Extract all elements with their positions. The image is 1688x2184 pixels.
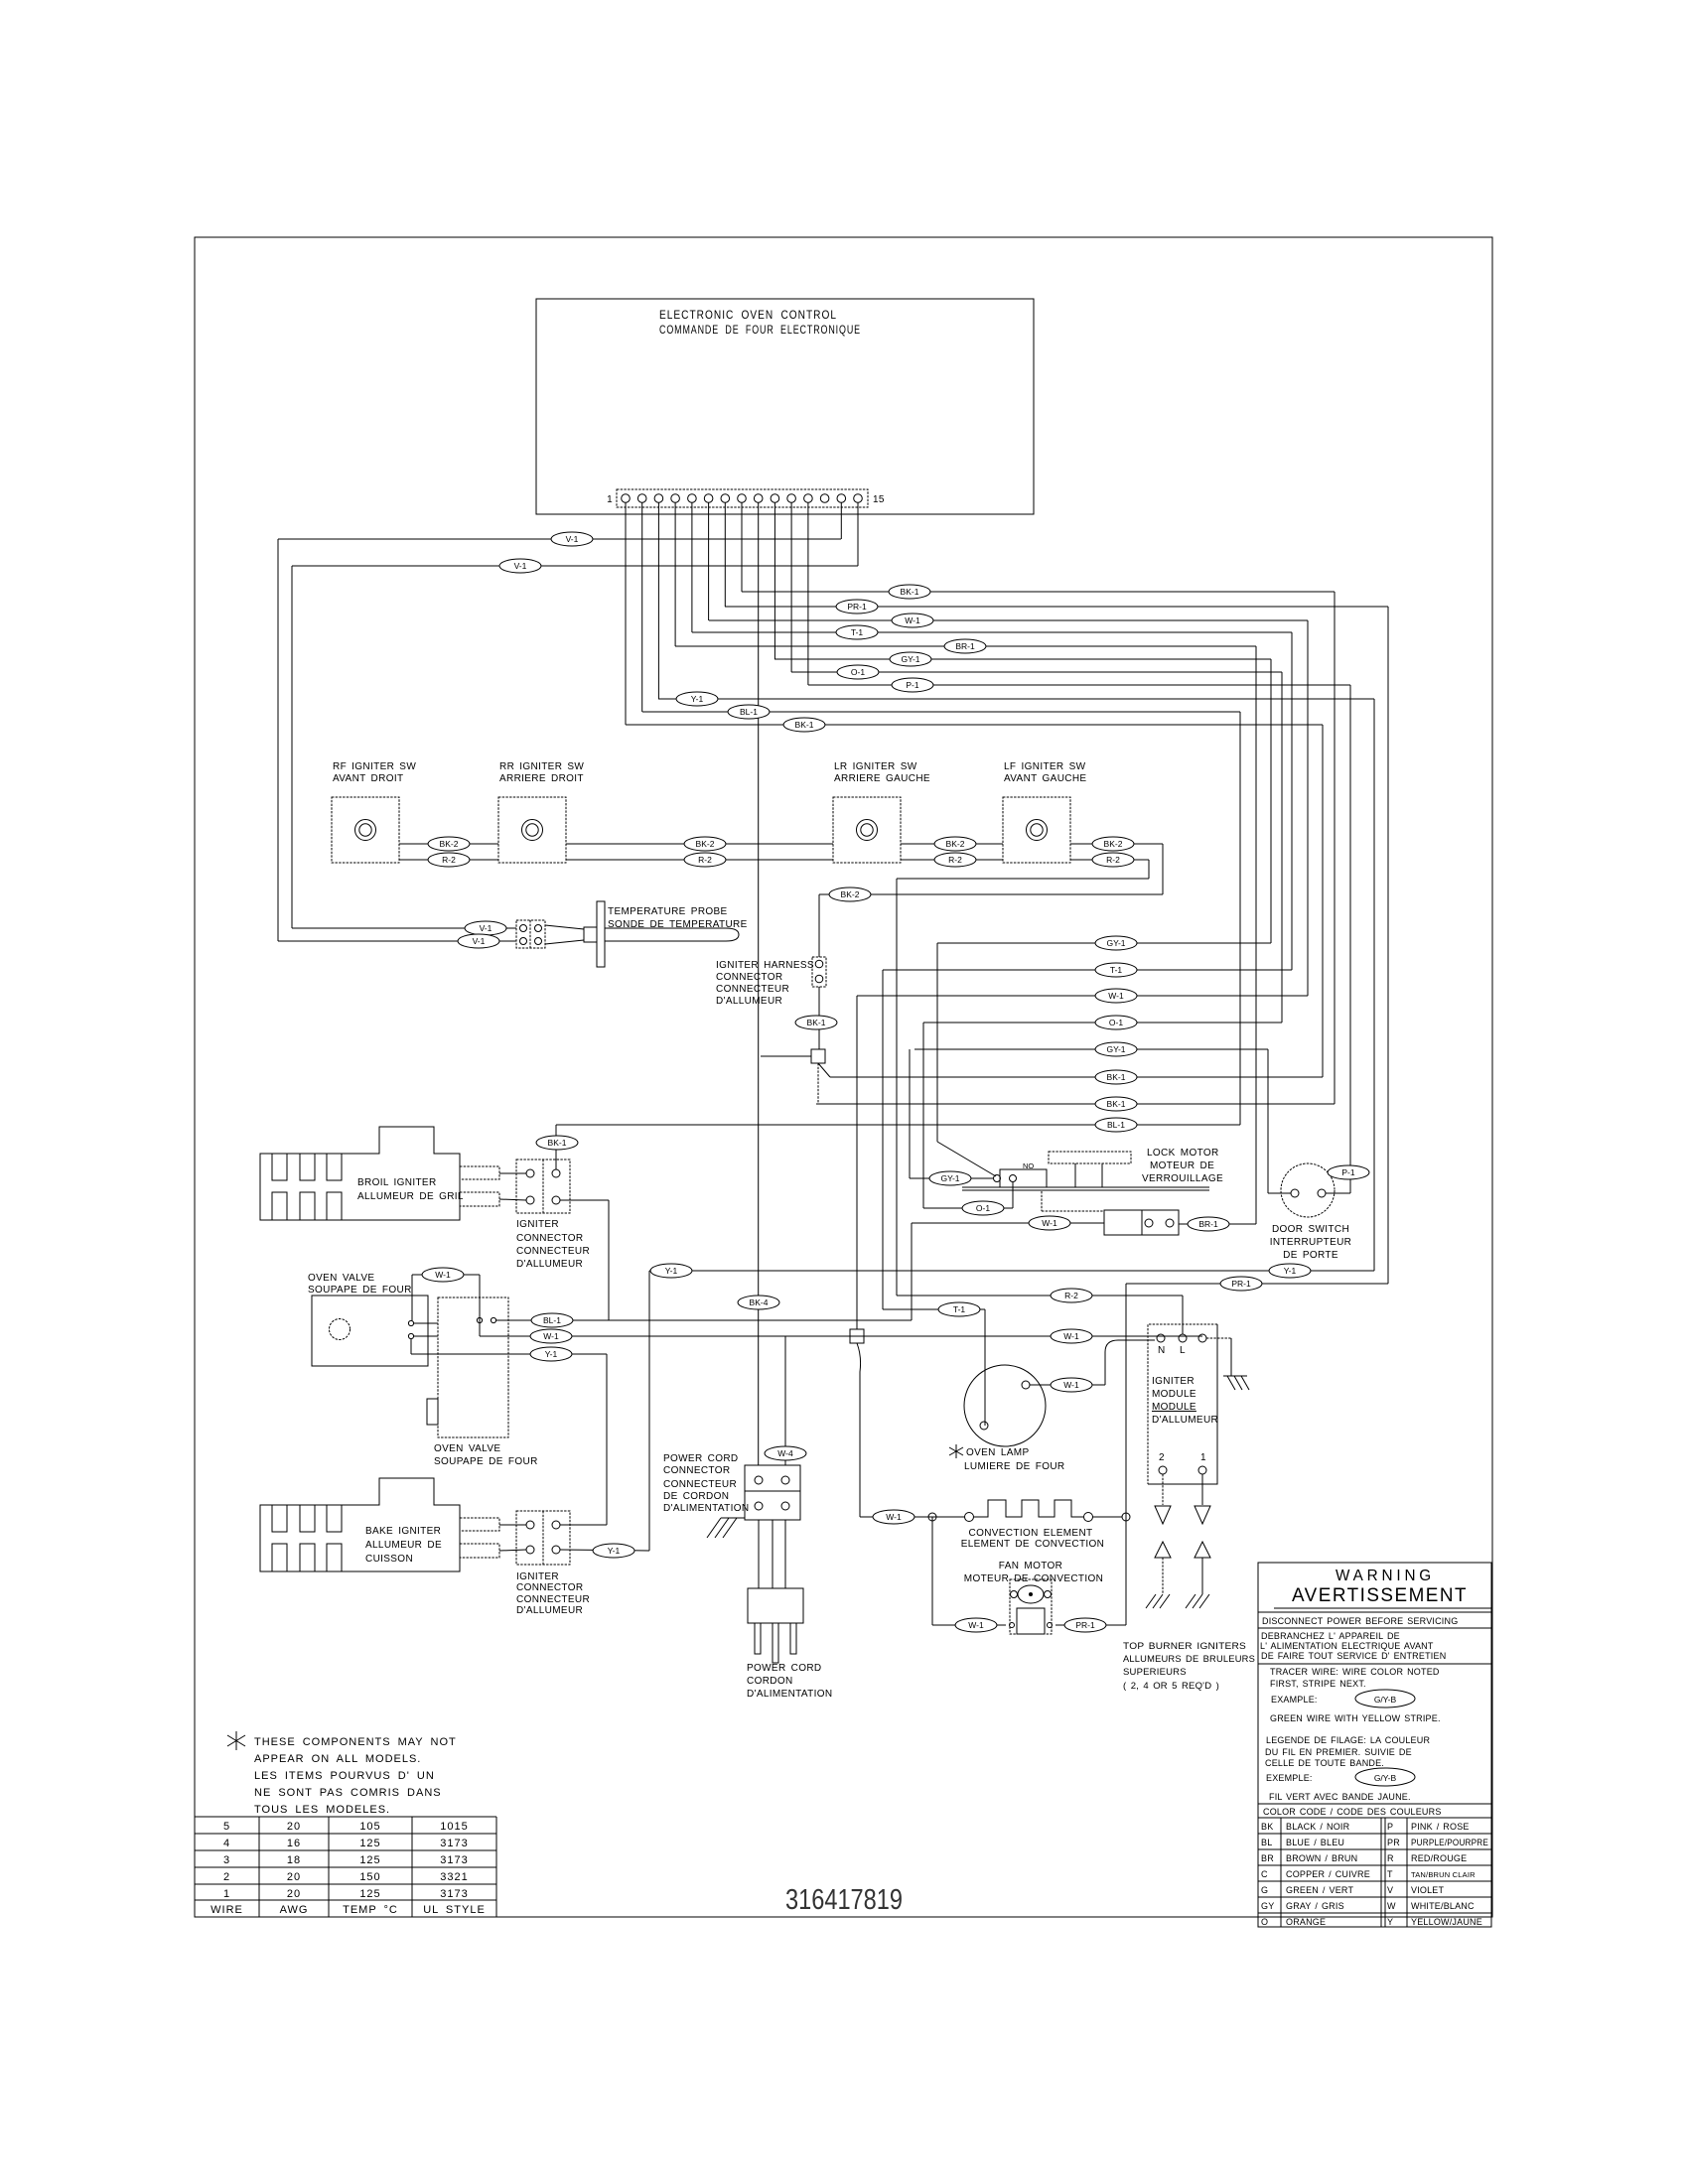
svg-text:BK-1: BK-1: [1107, 1099, 1126, 1109]
svg-text:CONNECTOR: CONNECTOR: [516, 1233, 583, 1244]
svg-text:DISCONNECT POWER BEFORE SERVIC: DISCONNECT POWER BEFORE SERVICING: [1262, 1616, 1458, 1626]
svg-text:1: 1: [607, 494, 613, 505]
svg-text:DOOR SWITCH: DOOR SWITCH: [1272, 1224, 1349, 1235]
svg-text:D'ALLUMEUR: D'ALLUMEUR: [516, 1259, 583, 1270]
svg-text:3173: 3173: [440, 1888, 468, 1900]
svg-text:ALLUMEUR DE: ALLUMEUR DE: [365, 1540, 442, 1551]
svg-text:DE CORDON: DE CORDON: [663, 1491, 729, 1502]
svg-text:ORANGE: ORANGE: [1286, 1917, 1326, 1927]
svg-text:R-2: R-2: [1106, 855, 1120, 865]
svg-text:GY-1: GY-1: [901, 654, 919, 664]
svg-text:MODULE: MODULE: [1152, 1389, 1196, 1400]
svg-text:T: T: [1387, 1869, 1393, 1879]
svg-text:BROIL IGNITER: BROIL IGNITER: [357, 1177, 437, 1188]
svg-text:D'ALLUMEUR: D'ALLUMEUR: [516, 1605, 583, 1616]
svg-text:3321: 3321: [440, 1871, 468, 1883]
svg-text:RF IGNITER SW: RF IGNITER SW: [333, 761, 416, 772]
svg-text:OVEN VALVE: OVEN VALVE: [434, 1443, 500, 1454]
svg-text:P: P: [1387, 1822, 1393, 1832]
svg-text:3: 3: [223, 1854, 230, 1866]
svg-text:ELEMENT DE CONVECTION: ELEMENT DE CONVECTION: [961, 1539, 1105, 1550]
svg-text:GY-1: GY-1: [1106, 938, 1125, 948]
svg-text:PR: PR: [1387, 1838, 1400, 1847]
svg-text:W-1: W-1: [1063, 1380, 1079, 1390]
svg-text:DU FIL EN PREMIER. SUIVIE: DU FIL EN PREMIER. SUIVIE DE: [1265, 1747, 1412, 1757]
svg-text:BK: BK: [1261, 1822, 1273, 1832]
svg-text:GY-1: GY-1: [940, 1173, 959, 1183]
svg-text:G/Y-B: G/Y-B: [1374, 1773, 1397, 1783]
svg-text:Y: Y: [1387, 1917, 1393, 1927]
svg-text:R-2: R-2: [1064, 1291, 1078, 1300]
svg-text:OVEN VALVE: OVEN VALVE: [308, 1273, 374, 1284]
svg-text:WIRE: WIRE: [211, 1904, 243, 1916]
svg-text:N: N: [1158, 1345, 1166, 1356]
svg-text:ELECTRONIC OVEN CONTROL: ELECTRONIC OVEN CONTROL: [659, 308, 837, 322]
svg-text:AVERTISSEMENT: AVERTISSEMENT: [1292, 1585, 1468, 1606]
svg-text:CONNECTEUR: CONNECTEUR: [516, 1246, 590, 1257]
svg-text:AWG: AWG: [280, 1904, 309, 1916]
svg-text:R-2: R-2: [948, 855, 962, 865]
svg-text:IGNITER: IGNITER: [516, 1219, 559, 1230]
svg-text:INTERRUPTEUR: INTERRUPTEUR: [1270, 1237, 1352, 1248]
svg-text:PR-1: PR-1: [1075, 1620, 1095, 1630]
svg-text:BAKE IGNITER: BAKE IGNITER: [365, 1526, 441, 1537]
svg-text:BK-1: BK-1: [1107, 1072, 1126, 1082]
svg-text:PURPLE/POURPRE: PURPLE/POURPRE: [1411, 1838, 1488, 1847]
svg-text:BK-2: BK-2: [440, 839, 459, 849]
svg-text:IGNITER: IGNITER: [1152, 1376, 1195, 1387]
svg-text:G/Y-B: G/Y-B: [1374, 1695, 1397, 1705]
svg-text:TOUS LES MODELES.: TOUS LES MODELES.: [254, 1804, 390, 1816]
svg-text:O-1: O-1: [1109, 1018, 1123, 1027]
svg-text:POWER CORD: POWER CORD: [663, 1453, 739, 1464]
svg-text:YELLOW/JAUNE: YELLOW/JAUNE: [1411, 1917, 1482, 1927]
svg-text:O: O: [1261, 1917, 1268, 1927]
svg-text:GY-1: GY-1: [1106, 1044, 1125, 1054]
svg-text:CONNECTEUR: CONNECTEUR: [716, 984, 789, 995]
svg-text:BK-2: BK-2: [696, 839, 715, 849]
svg-text:( 2, 4 OR 5 REQ'D ): ( 2, 4 OR 5 REQ'D ): [1123, 1681, 1219, 1692]
svg-text:CORDON: CORDON: [747, 1676, 793, 1687]
svg-text:L: L: [1180, 1345, 1186, 1356]
svg-text:COMMANDE DE FOUR ELECTRONIQ: COMMANDE DE FOUR ELECTRONIQUE: [659, 323, 861, 337]
svg-text:BL: BL: [1261, 1838, 1272, 1847]
svg-text:CONNECTEUR: CONNECTEUR: [516, 1594, 590, 1605]
svg-text:W-1: W-1: [1042, 1218, 1057, 1228]
svg-text:ALLUMEUR DE GRIL: ALLUMEUR DE GRIL: [357, 1191, 464, 1202]
svg-text:CONNECTOR: CONNECTOR: [516, 1582, 583, 1593]
svg-text:R-2: R-2: [442, 855, 456, 865]
svg-text:D'ALIMENTATION: D'ALIMENTATION: [663, 1503, 749, 1514]
svg-text:P-1: P-1: [906, 680, 919, 690]
svg-text:FIRST, STRIPE NEXT.: FIRST, STRIPE NEXT.: [1270, 1679, 1366, 1689]
svg-text:BK-2: BK-2: [946, 839, 965, 849]
svg-text:PINK / ROSE: PINK / ROSE: [1411, 1822, 1470, 1832]
svg-text:BL-1: BL-1: [1107, 1120, 1125, 1130]
svg-text:V: V: [1387, 1885, 1393, 1895]
svg-text:Y-1: Y-1: [691, 694, 704, 704]
svg-text:ARRIERE GAUCHE: ARRIERE GAUCHE: [834, 773, 930, 784]
svg-text:T-1: T-1: [851, 627, 864, 637]
svg-text:125: 125: [359, 1854, 380, 1866]
svg-text:VIOLET: VIOLET: [1411, 1885, 1445, 1895]
svg-text:V-1: V-1: [566, 534, 579, 544]
svg-text:FAN MOTOR: FAN MOTOR: [999, 1561, 1062, 1571]
svg-text:BK-4: BK-4: [750, 1297, 769, 1307]
svg-text:BK-2: BK-2: [1104, 839, 1123, 849]
svg-text:P-1: P-1: [1341, 1167, 1355, 1177]
svg-text:BL-1: BL-1: [543, 1315, 561, 1325]
svg-text:CONNECTOR: CONNECTOR: [663, 1465, 730, 1476]
svg-text:RED/ROUGE: RED/ROUGE: [1411, 1853, 1467, 1863]
svg-text:EXAMPLE:: EXAMPLE:: [1271, 1695, 1318, 1705]
svg-text:BR-1: BR-1: [955, 641, 975, 651]
svg-text:20: 20: [287, 1888, 301, 1900]
svg-text:150: 150: [359, 1871, 380, 1883]
svg-text:BK-2: BK-2: [841, 889, 860, 899]
svg-text:EXEMPLE:: EXEMPLE:: [1266, 1773, 1313, 1783]
svg-text:BK-1: BK-1: [548, 1138, 567, 1148]
svg-text:SOUPAPE DE FOUR: SOUPAPE DE FOUR: [434, 1456, 538, 1467]
svg-text:O-1: O-1: [851, 667, 865, 677]
svg-text:15: 15: [873, 494, 885, 505]
svg-text:W-1: W-1: [435, 1270, 451, 1280]
svg-text:125: 125: [359, 1888, 380, 1900]
svg-text:1: 1: [223, 1888, 230, 1900]
svg-text:SONDE DE TEMPERATURE: SONDE DE TEMPERATURE: [608, 919, 748, 930]
svg-text:SOUPAPE DE FOUR: SOUPAPE DE FOUR: [308, 1285, 412, 1296]
svg-text:Y-1: Y-1: [665, 1266, 678, 1276]
svg-text:18: 18: [287, 1854, 301, 1866]
svg-text:LF IGNITER SW: LF IGNITER SW: [1004, 761, 1086, 772]
svg-text:UL STYLE: UL STYLE: [423, 1904, 486, 1916]
svg-text:SUPERIEURS: SUPERIEURS: [1123, 1667, 1187, 1678]
svg-text:R-2: R-2: [698, 855, 712, 865]
svg-text:D'ALLUMEUR: D'ALLUMEUR: [716, 996, 782, 1007]
svg-text:O-1: O-1: [976, 1203, 990, 1213]
svg-text:BK-1: BK-1: [901, 587, 919, 597]
svg-text:DEBRANCHEZ L' APPAREIL DE: DEBRANCHEZ L' APPAREIL DE: [1261, 1631, 1400, 1641]
svg-text:LUMIERE DE FOUR: LUMIERE DE FOUR: [964, 1461, 1064, 1472]
svg-text:COPPER / CUIVRE: COPPER / CUIVRE: [1286, 1869, 1370, 1879]
svg-text:CONNECTOR: CONNECTOR: [716, 972, 782, 983]
svg-text:GY: GY: [1261, 1901, 1274, 1911]
svg-text:AVANT GAUCHE: AVANT GAUCHE: [1004, 773, 1086, 784]
svg-text:DE PORTE: DE PORTE: [1283, 1250, 1338, 1261]
svg-text:V-1: V-1: [480, 923, 492, 933]
svg-text:W-1: W-1: [968, 1620, 984, 1630]
svg-text:TEMP °C: TEMP °C: [343, 1904, 398, 1916]
svg-text:LEGENDE DE FILAGE: LA COULEU: LEGENDE DE FILAGE: LA COULEUR: [1266, 1735, 1430, 1745]
svg-text:1: 1: [1200, 1452, 1206, 1463]
svg-text:1015: 1015: [440, 1821, 468, 1833]
svg-text:WHITE/BLANC: WHITE/BLANC: [1411, 1901, 1475, 1911]
svg-text:5: 5: [223, 1821, 230, 1833]
svg-text:L' ALIMENTATION ELECTRIQUE: L' ALIMENTATION ELECTRIQUE AVANT: [1260, 1641, 1434, 1651]
svg-text:2: 2: [1159, 1452, 1165, 1463]
svg-text:W-1: W-1: [1108, 991, 1124, 1001]
svg-text:W: W: [1387, 1901, 1396, 1911]
svg-text:T-1: T-1: [953, 1304, 966, 1314]
svg-text:16: 16: [287, 1838, 301, 1849]
svg-text:20: 20: [287, 1821, 301, 1833]
svg-text:3173: 3173: [440, 1838, 468, 1849]
svg-text:BL-1: BL-1: [740, 707, 758, 717]
svg-text:COLOR CODE / CODE DES COULEU: COLOR CODE / CODE DES COULEURS: [1263, 1807, 1442, 1817]
svg-text:4: 4: [223, 1838, 230, 1849]
svg-text:BK-1: BK-1: [795, 720, 814, 730]
svg-text:W-1: W-1: [886, 1512, 902, 1522]
svg-text:Y-1: Y-1: [608, 1546, 621, 1556]
svg-text:PR-1: PR-1: [847, 602, 867, 612]
svg-text:RR IGNITER SW: RR IGNITER SW: [499, 761, 584, 772]
svg-text:CONNECTEUR: CONNECTEUR: [663, 1479, 737, 1490]
svg-text:BR-1: BR-1: [1198, 1219, 1218, 1229]
svg-text:ALLUMEURS DE BRULEURS: ALLUMEURS DE BRULEURS: [1123, 1654, 1255, 1665]
svg-text:OVEN LAMP: OVEN LAMP: [966, 1447, 1030, 1458]
svg-text:TRACER WIRE: WIRE COLOR: TRACER WIRE: WIRE COLOR NOTED: [1270, 1667, 1440, 1677]
svg-text:BLUE / BLEU: BLUE / BLEU: [1286, 1838, 1344, 1847]
svg-text:D'ALLUMEUR: D'ALLUMEUR: [1152, 1415, 1218, 1426]
svg-text:VERROUILLAGE: VERROUILLAGE: [1142, 1173, 1223, 1184]
svg-text:NE SONT PAS COMRIS DANS: NE SONT PAS COMRIS DANS: [254, 1787, 442, 1799]
svg-text:TEMPERATURE PROBE: TEMPERATURE PROBE: [608, 906, 728, 917]
svg-text:PR-1: PR-1: [1231, 1279, 1251, 1289]
svg-text:316417819: 316417819: [785, 1884, 903, 1916]
svg-text:WARNING: WARNING: [1336, 1568, 1435, 1584]
svg-text:DE FAIRE TOUT SERVICE: DE FAIRE TOUT SERVICE D' ENTRETIEN: [1261, 1651, 1446, 1661]
svg-text:APPEAR ON ALL MODELS.: APPEAR ON ALL MODELS.: [254, 1753, 421, 1765]
svg-text:NO: NO: [1023, 1161, 1034, 1170]
svg-text:ARRIERE DROIT: ARRIERE DROIT: [499, 773, 584, 784]
svg-text:POWER CORD: POWER CORD: [747, 1663, 822, 1674]
svg-text:BLACK / NOIR: BLACK / NOIR: [1286, 1822, 1350, 1832]
svg-text:105: 105: [359, 1821, 380, 1833]
svg-text:3173: 3173: [440, 1854, 468, 1866]
svg-text:20: 20: [287, 1871, 301, 1883]
svg-text:LR IGNITER SW: LR IGNITER SW: [834, 761, 917, 772]
svg-text:BK-1: BK-1: [807, 1018, 826, 1027]
svg-text:T-1: T-1: [1110, 965, 1123, 975]
svg-text:R: R: [1387, 1853, 1394, 1863]
svg-text:C: C: [1261, 1869, 1268, 1879]
svg-text:V-1: V-1: [473, 936, 486, 946]
svg-text:GREEN / VERT: GREEN / VERT: [1286, 1885, 1353, 1895]
svg-text:125: 125: [359, 1838, 380, 1849]
svg-text:CUISSON: CUISSON: [365, 1554, 413, 1565]
svg-text:W-1: W-1: [543, 1331, 559, 1341]
svg-text:IGNITER HARNESS: IGNITER HARNESS: [716, 960, 814, 971]
svg-text:LES ITEMS POURVUS D' UN: LES ITEMS POURVUS D' UN: [254, 1770, 435, 1782]
svg-text:FIL VERT AVEC BANDE JA: FIL VERT AVEC BANDE JAUNE.: [1269, 1792, 1411, 1802]
svg-text:BROWN / BRUN: BROWN / BRUN: [1286, 1853, 1357, 1863]
svg-text:CONVECTION ELEMENT: CONVECTION ELEMENT: [969, 1528, 1093, 1539]
svg-text:Y-1: Y-1: [545, 1349, 558, 1359]
svg-text:V-1: V-1: [514, 561, 527, 571]
svg-text:G: G: [1261, 1885, 1268, 1895]
svg-text:MODULE: MODULE: [1152, 1402, 1196, 1413]
svg-text:W-1: W-1: [1063, 1331, 1079, 1341]
svg-text:THESE COMPONENTS MAY NOT: THESE COMPONENTS MAY NOT: [254, 1736, 457, 1748]
svg-text:Y-1: Y-1: [1284, 1266, 1297, 1276]
svg-text:AVANT DROIT: AVANT DROIT: [333, 773, 403, 784]
svg-text:GRAY / GRIS: GRAY / GRIS: [1286, 1901, 1344, 1911]
svg-text:IGNITER: IGNITER: [516, 1571, 559, 1582]
svg-text:BR: BR: [1261, 1853, 1274, 1863]
svg-text:MOTEUR DE: MOTEUR DE: [1150, 1160, 1214, 1171]
svg-text:D'ALIMENTATION: D'ALIMENTATION: [747, 1689, 832, 1700]
svg-text:TAN/BRUN CLAIR: TAN/BRUN CLAIR: [1411, 1870, 1476, 1879]
svg-text:CELLE DE TOUTE BANDE.: CELLE DE TOUTE BANDE.: [1265, 1758, 1384, 1768]
svg-text:2: 2: [223, 1871, 230, 1883]
svg-text:W-4: W-4: [777, 1448, 793, 1458]
svg-text:LOCK MOTOR: LOCK MOTOR: [1147, 1148, 1219, 1159]
svg-text:GREEN WIRE WITH YELLOW STR: GREEN WIRE WITH YELLOW STRIPE.: [1270, 1713, 1441, 1723]
svg-text:TOP BURNER IGNITERS: TOP BURNER IGNITERS: [1123, 1641, 1246, 1652]
svg-text:W-1: W-1: [905, 615, 920, 625]
